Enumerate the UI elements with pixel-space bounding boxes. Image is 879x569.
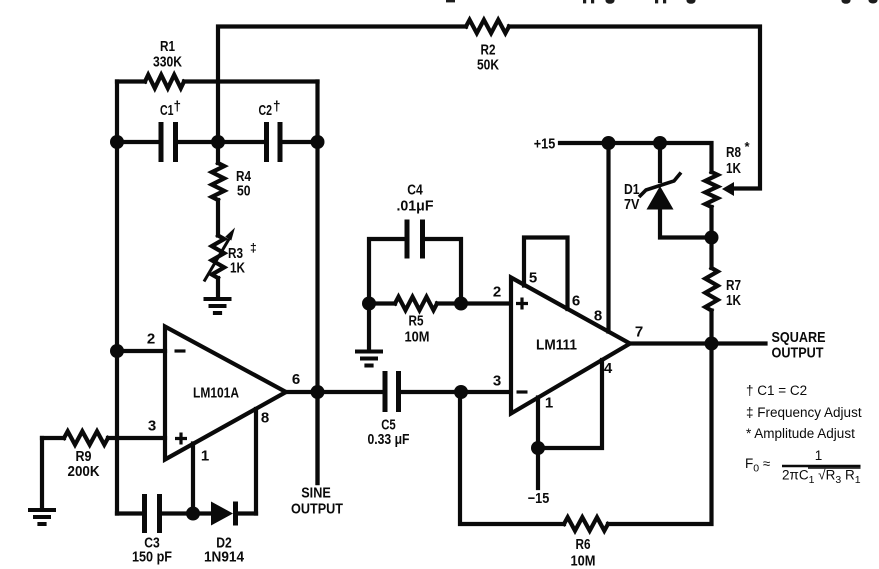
wire: LM101A pin3 input row [42, 436, 64, 440]
svg-text:50: 50 [237, 184, 251, 200]
svg-text:330K: 330K [153, 55, 182, 71]
ground (R5) [355, 352, 383, 366]
wire: +15 rail [560, 143, 712, 172]
svg-text:R7: R7 [726, 278, 741, 294]
svg-text:†: † [273, 99, 281, 114]
junction: C1-C2 midpoint [211, 135, 225, 149]
wire: LM101A pin6 output row to C5 [286, 390, 385, 394]
junction: D1 / R8 / R7 [705, 231, 719, 245]
resistor R6 [564, 517, 608, 530]
svg-text:200K: 200K [68, 464, 100, 480]
svg-text:R5: R5 [409, 314, 424, 330]
svg-text:†: † [174, 99, 182, 114]
svg-text:R8: R8 [726, 145, 741, 161]
zener diode D1 [658, 143, 662, 181]
svg-text:R6: R6 [576, 537, 591, 553]
svg-text:+15: +15 [534, 137, 556, 153]
capacitor C5 [383, 371, 388, 412]
formula F0 [745, 448, 861, 486]
capacitor C2 [264, 122, 269, 162]
svg-text:R1: R1 [160, 39, 175, 55]
svg-text:10M: 10M [571, 554, 596, 569]
svg-text:4: 4 [604, 360, 613, 377]
svg-text:OUTPUT: OUTPUT [291, 501, 343, 518]
svg-text:SINE: SINE [301, 485, 331, 502]
op-amp U1 LM101A [165, 327, 286, 460]
capacitor C1 [159, 122, 164, 162]
svg-text:1K: 1K [726, 293, 741, 309]
junction: R5/C4 left [362, 297, 376, 311]
non-inverting input sign [175, 433, 187, 445]
wire: R1 row left [117, 79, 145, 83]
wire: pin8 supply drop [606, 143, 610, 332]
wire: top feedback row [218, 27, 466, 143]
wire: LM111 pin1 stub and -15 [536, 398, 540, 489]
svg-text:SQUARE: SQUARE [772, 329, 826, 346]
wire: LM111 output row [630, 341, 766, 345]
svg-text:3: 3 [148, 418, 156, 435]
svg-text:150 pF: 150 pF [132, 550, 172, 566]
svg-text:50K: 50K [477, 58, 499, 74]
svg-text:LM101A: LM101A [193, 386, 239, 402]
wire: LM101A pin2 input [117, 349, 165, 353]
wire: LM101A pin8 stub [254, 409, 258, 514]
svg-text:6: 6 [292, 371, 300, 388]
wire: C1-C2 row [117, 140, 161, 144]
svg-text:6: 6 [572, 293, 580, 310]
junction: sine output node [311, 385, 325, 399]
capacitor C4 [369, 239, 407, 304]
svg-text:3: 3 [493, 373, 501, 390]
svg-text:C4: C4 [407, 183, 423, 199]
wire: LM101A pin1 stub [191, 444, 195, 514]
comparator U2 LM111 [511, 278, 630, 414]
svg-text:2: 2 [493, 284, 501, 301]
resistor R3 (variable, frequency adjust) [212, 236, 224, 279]
wire: R5 ground stub [367, 304, 371, 351]
capacitor C3 [142, 494, 147, 533]
resistor R2 [466, 20, 509, 33]
svg-text:‡: ‡ [250, 241, 257, 255]
wire: R9 to ground [40, 438, 44, 509]
junction: C1 left / left rail [110, 135, 124, 149]
ground (below R3) [204, 299, 232, 313]
junction: square output node [705, 337, 719, 351]
junction: pin1/pin4 [531, 441, 545, 455]
resistor R7 [709, 238, 713, 269]
wire: C5 to LM111 pin3 [399, 390, 512, 394]
svg-text:7V: 7V [624, 197, 640, 213]
svg-text:† C1 = C2: † C1 = C2 [746, 383, 807, 398]
junction: pin2 / left rail [110, 344, 124, 358]
svg-text:8: 8 [594, 308, 602, 325]
wire: R6 feedback loop [608, 344, 712, 525]
svg-text:7: 7 [635, 324, 643, 341]
wire: R1 row right [184, 79, 318, 83]
svg-text:* Amplitude Adjust: * Amplitude Adjust [746, 426, 855, 441]
wire: right rail [315, 82, 319, 484]
svg-text:8: 8 [261, 410, 269, 427]
wire: R3 to ground [216, 278, 220, 297]
cropped text fragments (top edge remnants) [446, 0, 878, 4]
svg-text:C1: C1 [160, 103, 174, 119]
svg-text:.01μF: .01μF [397, 199, 434, 215]
svg-text:1K: 1K [230, 261, 245, 277]
junction: pin3 / R6 feedback [454, 385, 468, 399]
junction: C2 right / right rail [311, 135, 325, 149]
wire: pin4 drop [538, 360, 602, 448]
svg-text:OUTPUT: OUTPUT [772, 345, 824, 362]
svg-text:2: 2 [147, 331, 155, 348]
wire: SINE output stub [315, 392, 319, 483]
svg-text:1K: 1K [726, 161, 741, 177]
potentiometer R8 (amplitude adjust) [705, 172, 717, 207]
ground (R9) [28, 510, 56, 524]
svg-text:1N914: 1N914 [204, 550, 244, 566]
resistor R5 [369, 301, 395, 305]
wire: R5 to LM111 pin2 [461, 301, 511, 305]
svg-text:0.33 μF: 0.33 μF [368, 432, 410, 448]
non-inverting input sign [516, 298, 528, 310]
svg-text:5: 5 [529, 270, 537, 287]
svg-text:LM111: LM111 [536, 338, 577, 354]
wire: R4 to R3 [216, 200, 220, 236]
diode D2 1N914 [211, 502, 233, 526]
resistor R9 [64, 431, 108, 444]
wire: R2 right to R8 wiper drop [509, 27, 760, 189]
svg-text:R9: R9 [76, 449, 92, 465]
svg-text:−15: −15 [528, 491, 550, 507]
wire: R8 bottom to junction [709, 207, 713, 238]
junction: R5/C4 right (pin2 row) [454, 297, 468, 311]
svg-text:‡ Frequency Adjust: ‡ Frequency Adjust [746, 405, 862, 420]
svg-text:R2: R2 [481, 43, 496, 59]
svg-text:1: 1 [815, 448, 823, 463]
svg-text:D1: D1 [624, 182, 640, 198]
junction: C3 / D2 / pin1 [186, 507, 200, 521]
junction: +15 / pin8 [602, 136, 616, 150]
svg-text:1: 1 [201, 448, 209, 465]
svg-text:10M: 10M [405, 330, 430, 346]
svg-text:C2: C2 [259, 103, 273, 119]
resistor R4 [216, 142, 220, 163]
svg-text:1: 1 [545, 395, 553, 412]
wire: left rail [115, 82, 119, 514]
inverting input sign [175, 349, 186, 352]
wire: C3/D2 bottom row [117, 511, 145, 515]
junction: +15 / D1 [653, 136, 667, 150]
resistor R1 [145, 75, 184, 88]
wire: pins 5-6 strap [524, 238, 568, 310]
inverting input sign [517, 390, 528, 393]
